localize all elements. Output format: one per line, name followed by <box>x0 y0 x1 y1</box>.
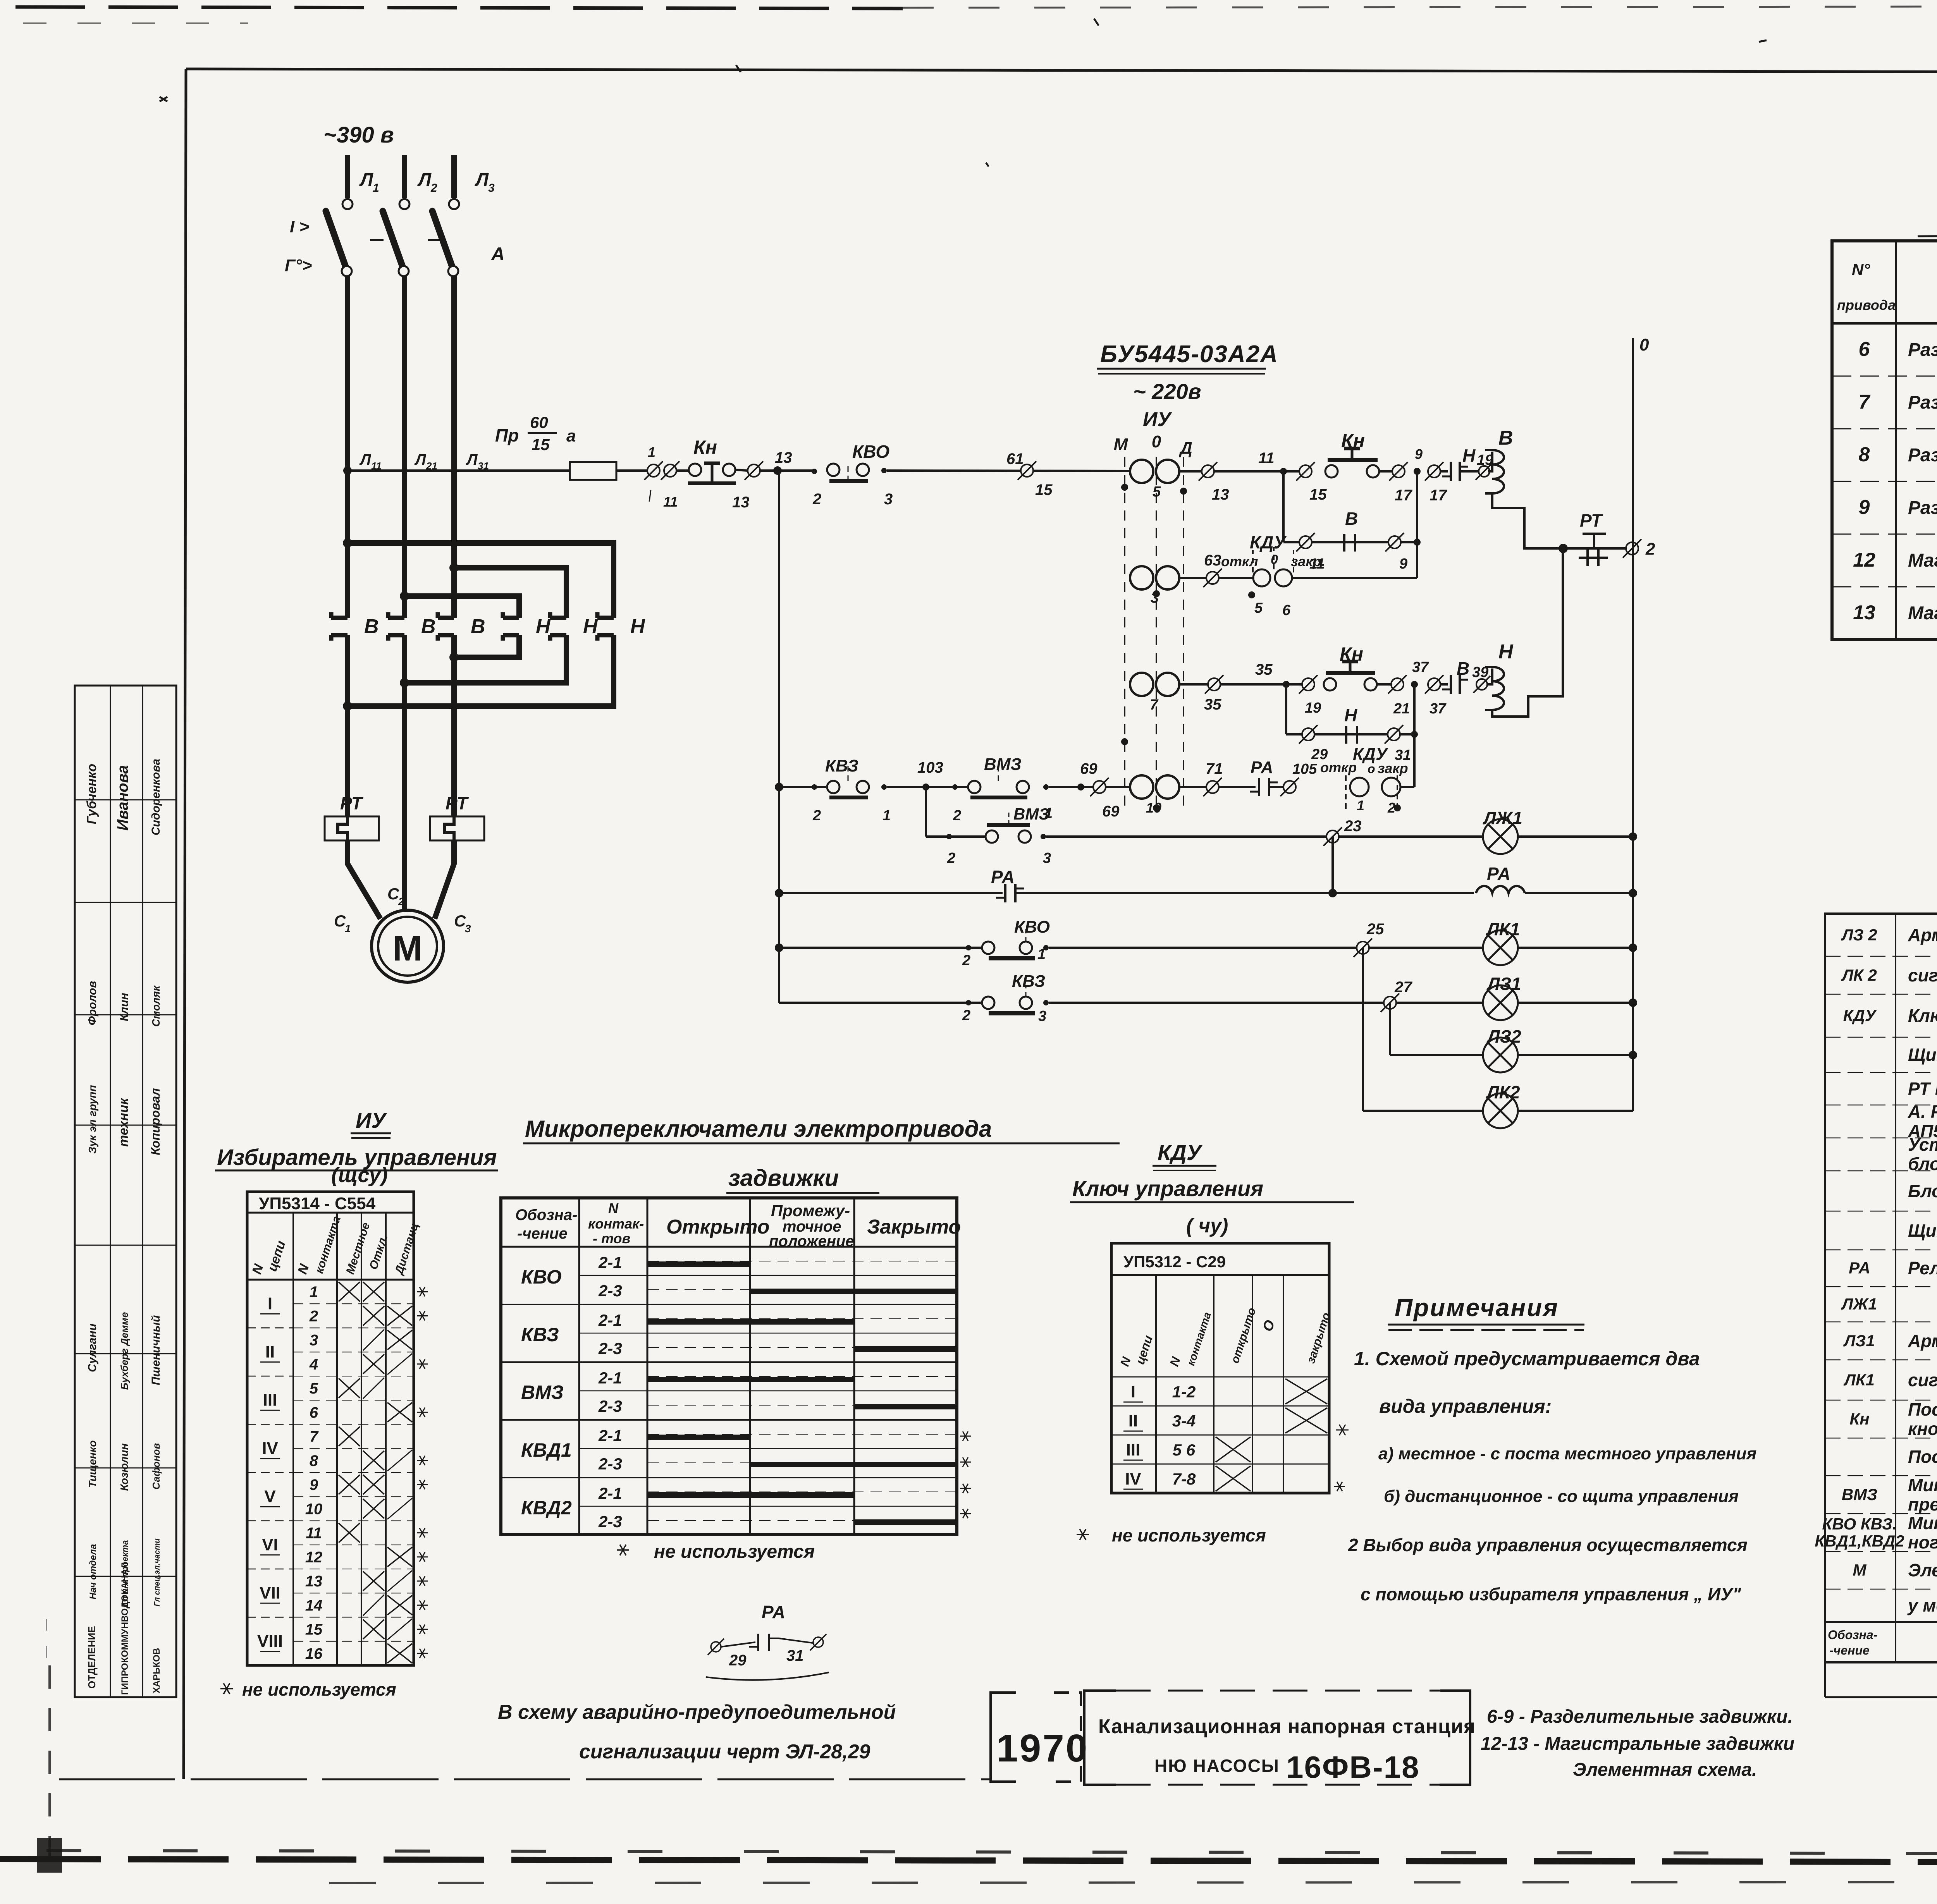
svg-text:V: V <box>264 1487 276 1506</box>
IU table asterisks <box>417 1291 428 1292</box>
svg-text:1: 1 <box>345 923 351 935</box>
svg-text:2-3: 2-3 <box>598 1512 622 1531</box>
svg-text:I >: I > <box>290 217 309 236</box>
terminal 25 <box>1357 942 1369 954</box>
lamp LJ1 yellow <box>1483 819 1518 854</box>
svg-text:( чу): ( чу) <box>1186 1215 1228 1237</box>
wire below V2 <box>402 635 407 911</box>
svg-text:откл: откл <box>1221 553 1258 569</box>
wire vertical node9 down <box>1416 471 1418 578</box>
contactor contact N 1 <box>503 616 519 620</box>
svg-text:Бухберг Демме: Бухберг Демме <box>119 1312 130 1390</box>
node 13 <box>773 466 782 475</box>
svg-text:КДУ: КДУ <box>1843 1006 1877 1024</box>
svg-text:Промежу-: Промежу- <box>771 1201 850 1220</box>
svg-text:В: В <box>1498 427 1513 449</box>
svg-text:23: 23 <box>1344 818 1362 835</box>
parts list table frame <box>1825 914 1937 1662</box>
svg-text:13: 13 <box>305 1573 323 1590</box>
svg-text:11: 11 <box>306 1525 322 1542</box>
svg-text:Н: Н <box>536 615 551 638</box>
svg-text:17: 17 <box>1395 487 1412 504</box>
wire KVZ row from bus <box>779 1002 983 1004</box>
node phase1 feed junction <box>343 538 352 548</box>
svg-text:КВЗ: КВЗ <box>1012 972 1045 991</box>
terminal 63 <box>1206 572 1219 584</box>
node N3 return junction <box>343 701 352 711</box>
svg-text:Козюлин: Козюлин <box>118 1443 130 1491</box>
svg-text:а) местное - с поста местного: а) местное - с поста местного управления <box>1378 1444 1756 1463</box>
terminal 11 <box>664 464 676 477</box>
contact RA in row4 <box>1258 778 1260 796</box>
svg-text:Магистральная задвижка №2: Магистральная задвижка №2 <box>1908 603 1937 624</box>
svg-text:21: 21 <box>426 460 437 472</box>
svg-text:3: 3 <box>1043 850 1051 866</box>
wire RA row from bus <box>775 889 783 897</box>
svg-text:сигнализации черт ЭЛ-28,: сигнализации черт ЭЛ-28,29 <box>579 1741 870 1763</box>
IU table frame <box>247 1192 414 1665</box>
svg-text:Электродвигатель: Электродвигатель <box>1908 1560 1937 1580</box>
svg-text:69: 69 <box>1080 760 1098 777</box>
svg-text:16: 16 <box>305 1645 323 1662</box>
svg-text:N: N <box>608 1200 619 1216</box>
svg-text:КВО КВЗ.: КВО КВЗ. <box>1822 1515 1897 1533</box>
terminal 1 <box>647 464 660 477</box>
svg-text:ного положения: ного положения <box>1908 1532 1937 1552</box>
svg-text:13: 13 <box>775 449 792 466</box>
svg-text:ЛК2: ЛК2 <box>1486 1082 1520 1102</box>
svg-text:Обозна-: Обозна- <box>1828 1628 1877 1642</box>
wire control feed row1 from phase1 <box>343 466 352 475</box>
contact KVO open-limit row1 (closed) <box>812 469 817 474</box>
wire row4 from bus <box>775 783 783 791</box>
microswitch table frame <box>501 1198 957 1535</box>
wire terminal27 down <box>1389 1003 1391 1055</box>
svg-text:10: 10 <box>305 1500 323 1517</box>
svg-text:ЛК1: ЛК1 <box>1486 919 1520 939</box>
svg-text:УП5312 - С29: УП5312 - С29 <box>1123 1253 1226 1271</box>
svg-text:11: 11 <box>663 494 678 510</box>
coil N (close contactor) <box>1487 668 1492 684</box>
svg-text:VI: VI <box>262 1535 278 1554</box>
svg-text:Д: Д <box>1178 439 1192 458</box>
svg-text:- тов: - тов <box>593 1230 630 1246</box>
fuse Pr 60/15 <box>570 462 616 480</box>
svg-text:Л: Л <box>475 170 489 190</box>
svg-text:о: о <box>1368 762 1375 776</box>
selector position M dashed line <box>1124 457 1125 813</box>
left margin stamp table <box>75 686 176 1697</box>
svg-text:~ 220в: ~ 220в <box>1133 379 1201 404</box>
svg-text:103: 103 <box>917 759 943 776</box>
svg-text:60: 60 <box>530 413 548 431</box>
svg-text:3: 3 <box>884 491 893 508</box>
svg-text:М: М <box>393 929 423 968</box>
svg-text:4: 4 <box>309 1356 318 1373</box>
svg-text:2: 2 <box>1645 540 1655 558</box>
wire row1 selector to node11 <box>1180 470 1299 473</box>
svg-text:16ФВ-18: 16ФВ-18 <box>1286 1750 1420 1784</box>
svg-text:техник: техник <box>116 1097 131 1146</box>
svg-text:РТ: РТ <box>1580 510 1603 531</box>
terminal 35 <box>1208 678 1220 691</box>
svg-text:задвижки: задвижки <box>728 1165 839 1191</box>
terminal 17b <box>1428 465 1440 478</box>
svg-text:III: III <box>263 1390 277 1409</box>
wire N1 return <box>454 635 519 657</box>
svg-text:14: 14 <box>305 1597 323 1614</box>
svg-text:Копировал: Копировал <box>148 1088 162 1155</box>
svg-text:VIII: VIII <box>257 1632 283 1651</box>
svg-text:9: 9 <box>1859 496 1870 519</box>
KDU footnote <box>1077 1534 1089 1535</box>
svg-text:1: 1 <box>1357 797 1364 813</box>
terminal 23 <box>1326 830 1339 843</box>
svg-text:кнопочный: кнопочный <box>1908 1419 1937 1439</box>
circuit breaker A with thermal and overcurrent releases <box>342 199 353 209</box>
svg-text:I: I <box>268 1294 272 1313</box>
wire LK1 to bus <box>1518 947 1633 949</box>
svg-text:блоке управления: блоке управления <box>1908 1154 1937 1174</box>
svg-text:0: 0 <box>1152 432 1161 451</box>
svg-text:Сафонов: Сафонов <box>150 1443 162 1490</box>
node RT junction <box>1559 544 1568 553</box>
wire phase B vertical L21 <box>402 276 407 618</box>
svg-text:Элементная схема.: Элементная схема. <box>1573 1760 1757 1780</box>
svg-text:С: С <box>334 912 346 930</box>
svg-text:ЛЖ1: ЛЖ1 <box>1483 808 1522 828</box>
svg-text:9: 9 <box>310 1476 318 1493</box>
node on O line below row4 <box>1153 804 1160 811</box>
contactor contact N 3 <box>597 616 614 620</box>
bus 0 vertical <box>1632 338 1634 1111</box>
svg-text:Ключ управления: Ключ управления <box>1072 1176 1263 1201</box>
svg-text:Кн: Кн <box>1849 1410 1869 1428</box>
wire row2 to vertical x3658 <box>1292 577 1417 579</box>
svg-text:Пр: Пр <box>495 425 519 445</box>
node on M line below row1 <box>1121 484 1128 491</box>
svg-text:КВД1: КВД1 <box>521 1439 572 1461</box>
svg-text:РА: РА <box>1251 758 1273 777</box>
svg-text:Таблица применения: Таблица применения <box>1935 202 1937 235</box>
svg-text:УП5314 - С554: УП5314 - С554 <box>259 1194 376 1213</box>
wire supply stub L2 <box>402 155 407 198</box>
node branch V-selfhold <box>1280 468 1287 475</box>
svg-text:5 6: 5 6 <box>1173 1441 1196 1459</box>
svg-text:3: 3 <box>465 923 471 935</box>
svg-text:КДУ: КДУ <box>1158 1140 1203 1165</box>
svg-text:5: 5 <box>1254 600 1263 616</box>
svg-text:13: 13 <box>732 494 750 511</box>
svg-text:Реле промежуточное: Реле промежуточное <box>1908 1258 1937 1278</box>
svg-text:Разделительная задвижка №1: Разделительная задвижка №1 <box>1908 340 1937 360</box>
svg-text:2: 2 <box>398 895 404 907</box>
svg-text:РА: РА <box>991 867 1015 887</box>
contact KVZ in row4 <box>812 784 817 790</box>
svg-text:(щсу): (щсу) <box>331 1163 388 1187</box>
svg-text:РА: РА <box>762 1602 785 1622</box>
wire below V1 <box>345 635 350 816</box>
svg-text:1. Схемой предусматривается: 1. Схемой предусматривается два <box>1354 1348 1700 1370</box>
stray mark near breaker <box>160 97 167 101</box>
svg-text:2: 2 <box>947 850 955 866</box>
wire N coil return to RT <box>1492 548 1563 717</box>
svg-text:откр: откр <box>1320 760 1357 775</box>
wire row3 <box>1180 683 1302 686</box>
svg-text:III: III <box>1126 1440 1141 1459</box>
svg-text:Гл спец.эл.части: Гл спец.эл.части <box>153 1538 162 1606</box>
svg-text:3: 3 <box>1038 1008 1046 1024</box>
lamp LZ2 row <box>1390 1054 1483 1056</box>
terminal before N coil <box>1476 679 1487 690</box>
selector position D dashed line <box>1183 457 1184 813</box>
svg-text:7: 7 <box>310 1428 319 1445</box>
wire supply stub L1 <box>345 155 350 198</box>
svg-text:25: 25 <box>1366 921 1384 938</box>
svg-text:8: 8 <box>1859 443 1870 466</box>
svg-text:7: 7 <box>1859 391 1871 413</box>
svg-text:Арматура для: Арматура для <box>1908 925 1937 945</box>
svg-text:А: А <box>491 244 505 265</box>
svg-text:31: 31 <box>786 1647 804 1664</box>
svg-text:Сулгани: Сулгани <box>86 1323 99 1372</box>
key KDU otkr-zakr row4 <box>1350 778 1369 796</box>
svg-text:б) дистанционное - со щита: б) дистанционное - со щита управления <box>1384 1487 1739 1506</box>
svg-text:закр: закр <box>1378 760 1408 776</box>
svg-text:не используется: не используется <box>654 1541 815 1562</box>
svg-text:-чение: -чение <box>1829 1643 1870 1657</box>
node 35 branch <box>1283 681 1290 688</box>
svg-text:9: 9 <box>1415 446 1423 462</box>
svg-text:вида управления:: вида управления: <box>1379 1395 1552 1417</box>
contact VMZ row4 <box>968 781 981 793</box>
selector contact 5 row1 <box>1130 460 1153 483</box>
svg-text:IV: IV <box>262 1439 278 1458</box>
svg-text:ОТДЕЛЕНИЕ: ОТДЕЛЕНИЕ <box>86 1626 98 1689</box>
svg-text:КВЗ: КВЗ <box>825 756 858 775</box>
thermal relay contact RT <box>1563 547 1626 550</box>
svg-text:2: 2 <box>962 952 970 969</box>
svg-text:В: В <box>471 615 485 638</box>
selector contact 3 row2 <box>1130 566 1153 589</box>
svg-text:1: 1 <box>648 444 655 460</box>
svg-text:2-3: 2-3 <box>598 1455 622 1473</box>
wire row1 to selector <box>887 471 1129 471</box>
microswitch asterisks <box>960 1436 971 1437</box>
svg-text:12-13 - Магистральные: 12-13 - Магистральные задвижки <box>1481 1734 1794 1754</box>
terminal 69 <box>1093 781 1106 793</box>
node phase2 feed junction <box>400 591 409 601</box>
svg-text:2: 2 <box>309 1308 318 1325</box>
node N1 return junction <box>449 653 459 662</box>
svg-text:0: 0 <box>1271 552 1278 567</box>
IU table X marks <box>339 1282 360 1301</box>
svg-text:А. Расцепитель автомата: А. Расцепитель автомата <box>1908 1102 1937 1122</box>
wire RA row mid <box>1015 892 1474 894</box>
svg-text:15: 15 <box>305 1621 323 1638</box>
svg-text:13: 13 <box>1212 486 1229 503</box>
svg-text:а: а <box>566 426 576 445</box>
svg-text:1970: 1970 <box>996 1727 1089 1770</box>
microswitch state bars <box>647 1261 750 1267</box>
wire L2 to motor C2 <box>402 840 407 911</box>
motor M <box>372 910 444 982</box>
svg-text:положение: положение <box>769 1233 854 1250</box>
node 69 junction <box>1077 784 1084 790</box>
svg-text:Микропереключатели конеч-: Микропереключатели конеч- <box>1908 1513 1937 1533</box>
IU table rows <box>293 1303 414 1304</box>
svg-text:контак-: контак- <box>588 1216 644 1232</box>
svg-text:ИУ: ИУ <box>356 1108 387 1132</box>
svg-text:ВМЗ: ВМЗ <box>1842 1485 1877 1504</box>
svg-text:Уставки аппаратов на: Уставки аппаратов на <box>1908 1134 1937 1155</box>
svg-text:1: 1 <box>310 1284 318 1301</box>
node 103 <box>922 784 929 790</box>
wire vertical node37 down <box>1413 684 1416 787</box>
frame bottom border left part <box>59 1779 991 1780</box>
svg-text:КДУ: КДУ <box>1250 532 1287 552</box>
wire N3 return <box>347 635 614 706</box>
KDU asterisks <box>1336 1430 1349 1431</box>
terminal 71 <box>1206 781 1219 793</box>
svg-text:IV: IV <box>1125 1469 1141 1488</box>
svg-text:31: 31 <box>478 460 489 472</box>
node 37 <box>1411 681 1418 688</box>
svg-text:Г°>: Г°> <box>285 256 312 275</box>
svg-text:ЛЗ2: ЛЗ2 <box>1486 1026 1521 1047</box>
wire terminal25 down <box>1362 948 1364 1111</box>
svg-text:Н: Н <box>583 615 598 638</box>
svg-text:Обозна-: Обозна- <box>515 1206 577 1224</box>
svg-text:15: 15 <box>1309 486 1327 503</box>
svg-text:Н: Н <box>1462 445 1476 466</box>
svg-text:КВД2: КВД2 <box>521 1497 572 1519</box>
svg-text:1: 1 <box>373 182 379 194</box>
svg-text:12: 12 <box>305 1549 323 1566</box>
V self-hold branch <box>1282 471 1285 542</box>
wire row4 right <box>1180 786 1256 788</box>
svg-text:Кн: Кн <box>1340 643 1363 665</box>
svg-text:не используется: не используется <box>1112 1525 1266 1545</box>
start button Kn row3 (close) <box>1324 678 1336 691</box>
svg-text:2: 2 <box>430 182 437 194</box>
svg-text:ГИПРОКОММУНВОДОКАНАЛ: ГИПРОКОММУНВОДОКАНАЛ <box>120 1562 130 1695</box>
svg-text:Магистральная задвижка №1: Магистральная задвижка №1 <box>1908 550 1937 571</box>
svg-text:3: 3 <box>310 1332 318 1349</box>
svg-text:РТ Реле тепловое: РТ Реле тепловое <box>1908 1079 1937 1099</box>
svg-text:37: 37 <box>1430 701 1447 717</box>
svg-text:35: 35 <box>1255 661 1273 678</box>
lamp LK2 row <box>1363 1110 1483 1112</box>
svg-text:РТ: РТ <box>446 793 469 813</box>
IU table footnote <box>220 1688 233 1689</box>
node on O line below row2 <box>1153 590 1160 597</box>
contactor contact V phase3 <box>438 616 454 620</box>
svg-text:В: В <box>1345 509 1358 529</box>
svg-text:Смоляк: Смоляк <box>150 985 162 1027</box>
svg-text:РА: РА <box>1487 864 1510 884</box>
svg-text:Открыто: Открыто <box>666 1216 770 1238</box>
wire RA coil to bus <box>1525 892 1633 894</box>
svg-text:6: 6 <box>1859 338 1870 361</box>
svg-text:ВМЗ: ВМЗ <box>1013 805 1049 823</box>
VMZ bypass branch row5 <box>925 787 927 837</box>
left control bus vertical <box>778 471 780 1003</box>
svg-text:Щит станции управления: Щит станции управления <box>1908 1220 1937 1241</box>
svg-text:Разделительная задвижка №4: Разделительная задвижка №4 <box>1908 498 1937 518</box>
svg-text:ЛЗ1: ЛЗ1 <box>1486 974 1521 994</box>
svg-text:6: 6 <box>1282 602 1291 619</box>
contactor contact N 2 <box>550 616 566 620</box>
contactor contact V phase2 <box>388 616 404 620</box>
svg-text:КВО: КВО <box>521 1266 562 1288</box>
svg-text:Тищенко: Тищенко <box>86 1440 98 1488</box>
svg-text:КВО: КВО <box>852 442 889 462</box>
svg-text:3: 3 <box>488 182 495 194</box>
wire phase C vertical L31 <box>451 276 457 618</box>
svg-text:ИУ: ИУ <box>1143 408 1172 431</box>
wire row4 to selector <box>1049 786 1129 788</box>
svg-text:Клин: Клин <box>118 993 131 1021</box>
wire row1 fuse to terminals <box>616 469 647 472</box>
svg-text:II: II <box>1128 1411 1138 1430</box>
svg-text:Ключ управления: Ключ управления <box>1908 1005 1937 1026</box>
svg-text:17: 17 <box>1430 487 1447 504</box>
svg-text:~390 в: ~390 в <box>323 122 394 148</box>
torn bottom edge <box>0 1859 1937 1863</box>
wire V coil return to RT <box>1492 493 1563 548</box>
svg-text:с помощью избирателя управ: с помощью избирателя управления „ ИУ" <box>1361 1584 1741 1604</box>
svg-text:РТ: РТ <box>340 793 364 813</box>
svg-text:НЮ НАСОСЫ: НЮ НАСОСЫ <box>1154 1756 1280 1776</box>
wire supply stub L3 <box>451 155 457 198</box>
thermal relay heater RT phase3 <box>430 816 484 840</box>
svg-text:6-9 - Разделительные: 6-9 - Разделительные задвижки. <box>1487 1706 1793 1727</box>
svg-text:ВМЗ: ВМЗ <box>521 1382 564 1403</box>
wire LJ1 to bus <box>1518 835 1633 838</box>
svg-text:сигнальной лампы: сигнальной лампы <box>1908 1370 1937 1390</box>
svg-text:21: 21 <box>1393 701 1410 717</box>
torn top edge line <box>15 7 903 9</box>
svg-text:Разделительная задвижка№3: Разделительная задвижка№3 <box>1908 445 1937 466</box>
svg-text:не используется: не используется <box>242 1679 396 1700</box>
svg-text:Иванова: Иванова <box>114 765 131 830</box>
wire RT1 to motor C1 <box>347 840 380 919</box>
svg-text:Губченко: Губченко <box>84 764 99 824</box>
wire row5 to lamp LJ1 <box>1046 835 1483 838</box>
wire KVZ row to lamp <box>1049 1002 1483 1004</box>
terminal 13b <box>1202 465 1214 478</box>
svg-text:ХАРЬКОВ: ХАРЬКОВ <box>151 1648 162 1693</box>
svg-text:2-1: 2-1 <box>598 1369 622 1387</box>
svg-text:Арматура для: Арматура для <box>1908 1331 1937 1351</box>
application table frame <box>1832 241 1937 639</box>
svg-text:12: 12 <box>1853 549 1875 571</box>
svg-text:Л: Л <box>466 451 478 468</box>
wire KVO row to lamp <box>1049 947 1483 949</box>
wire row4 end <box>1400 786 1414 788</box>
svg-text:Микропереключатели электропри: Микропереключатели электропривода <box>525 1116 992 1142</box>
svg-text:2 Выбор вида управления о: 2 Выбор вида управления осуществляется <box>1348 1535 1748 1555</box>
selector contact 10 row4 <box>1130 775 1153 799</box>
terminal 19 <box>1302 678 1314 691</box>
svg-text:Пшеничный: Пшеничный <box>150 1315 162 1385</box>
KDU X marks <box>1285 1379 1327 1404</box>
microswitch footnote <box>617 1549 629 1551</box>
svg-text:5: 5 <box>1153 484 1161 500</box>
thermal relay heater RT phase1 <box>325 816 379 840</box>
svg-text:у механизма: у механизма <box>1907 1595 1937 1615</box>
